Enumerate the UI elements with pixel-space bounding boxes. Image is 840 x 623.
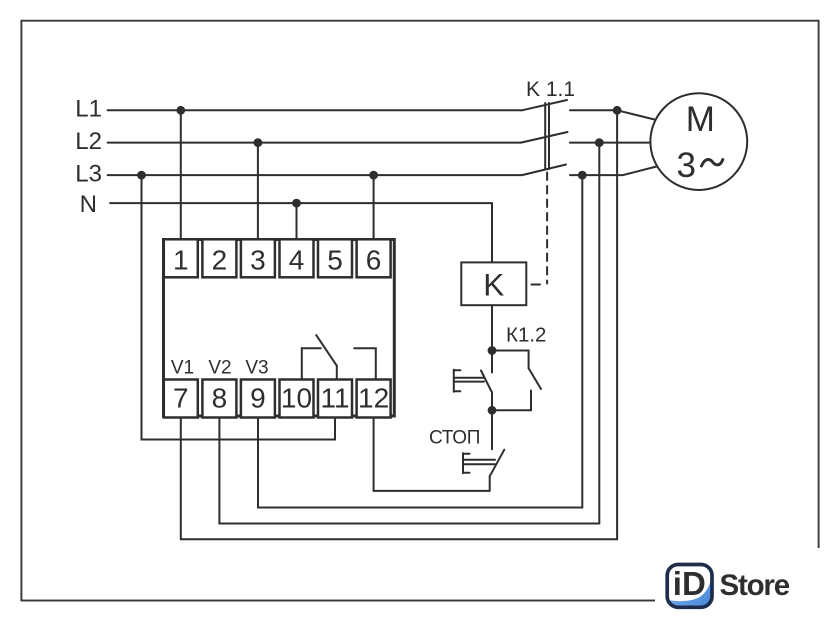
net label N <box>80 191 97 218</box>
svg-text:L2: L2 <box>75 128 102 155</box>
wire L2 right segment to motor <box>570 142 651 144</box>
dashed link from K1.1 to coil K <box>532 173 548 285</box>
wire L2 feeder left segment <box>108 142 521 144</box>
terminal 11 <box>318 380 352 418</box>
terminal 12 <box>357 380 391 418</box>
svg-text:К1.2: К1.2 <box>506 324 546 347</box>
label K 1.1 <box>526 78 575 101</box>
net label L3 <box>75 160 102 187</box>
node L1/terminal1 <box>176 106 185 115</box>
node start button top <box>488 346 497 355</box>
relay device box U1 <box>164 240 395 417</box>
terminal 4 <box>280 239 314 277</box>
svg-text:8: 8 <box>212 383 228 414</box>
svg-text:3: 3 <box>250 244 266 275</box>
node L2/terminal3 <box>254 138 263 147</box>
wire drop L2 to terminal 3 <box>257 143 259 239</box>
svg-text:V2: V2 <box>208 358 231 379</box>
svg-text:V3: V3 <box>245 358 268 379</box>
svg-text:9: 9 <box>250 383 266 414</box>
label V1 <box>171 358 194 379</box>
label V3 <box>245 358 268 379</box>
wire motor line 1 drop <box>616 110 618 539</box>
wire terminal 9 to motor line 3 <box>258 418 582 508</box>
wire terminal 8 to motor line 2 <box>219 418 599 524</box>
label K1.2 <box>506 324 546 347</box>
white patch behind logo <box>655 548 840 623</box>
node N/terminal4 <box>292 199 301 208</box>
wire N feeder <box>110 203 492 262</box>
wire L3 feeder left segment <box>108 174 522 176</box>
contactor contact K1.1 pole 1 blade <box>522 100 567 110</box>
node L3/terminal11 <box>137 171 146 180</box>
wire terminal 11 to L3 <box>142 175 336 439</box>
wire motor line 3 drop <box>581 175 583 507</box>
svg-text:7: 7 <box>173 383 189 414</box>
svg-text:6: 6 <box>366 244 382 275</box>
wire terminal 7 to motor line 1 <box>181 418 617 540</box>
svg-text:L3: L3 <box>75 160 102 187</box>
svg-text:L1: L1 <box>75 96 102 123</box>
svg-text:N: N <box>80 191 97 218</box>
wire terminal 12 to stop button <box>374 418 490 491</box>
terminal 6 <box>357 239 391 277</box>
svg-text:12: 12 <box>358 383 389 414</box>
svg-text:1: 1 <box>173 244 189 275</box>
wire L3 right segment to motor <box>570 167 657 176</box>
logo iD Store <box>666 565 790 610</box>
svg-text:K 1.1: K 1.1 <box>526 78 575 101</box>
svg-text:4: 4 <box>289 244 305 275</box>
svg-text:iD: iD <box>673 565 706 602</box>
contactor contact K1.1 pole 3 blade <box>522 165 566 176</box>
contactor contact K1.1 pole 2 blade <box>521 132 568 143</box>
terminal 1 <box>164 239 198 277</box>
wire L1 right segment to motor <box>570 110 657 120</box>
svg-text:10: 10 <box>281 383 312 414</box>
net label L2 <box>75 128 102 155</box>
wire coil K to K1.2 node <box>491 305 493 350</box>
wire drop N to terminal 4 <box>296 203 298 239</box>
contactor K1.1 linkage bar <box>545 103 549 169</box>
label СТОП <box>429 428 480 449</box>
terminal 7 <box>164 380 198 418</box>
wire drop L1 to terminal 1 <box>180 110 182 239</box>
svg-text:M: M <box>686 100 715 139</box>
terminal 5 <box>318 239 352 277</box>
stop pushbutton SB2 (NC) <box>463 410 504 491</box>
svg-text:2: 2 <box>212 244 228 275</box>
terminal 8 <box>202 380 236 418</box>
terminal 9 <box>241 380 275 418</box>
svg-text:11: 11 <box>320 383 349 414</box>
motor M1 <box>650 93 747 190</box>
node L2/motor <box>595 138 604 147</box>
node L3/motor <box>578 171 587 180</box>
node start button bottom <box>488 406 497 415</box>
internal relay contact of U1 <box>302 335 376 379</box>
svg-text:5: 5 <box>327 244 343 275</box>
contactor coil K <box>461 262 526 305</box>
wire motor line 2 drop <box>598 143 600 524</box>
auxiliary contact K1.2 <box>492 351 541 411</box>
svg-text:3: 3 <box>676 146 695 185</box>
wire drop L3 to terminal 6 <box>373 175 375 239</box>
terminal 10 <box>280 380 314 418</box>
svg-text:Store: Store <box>720 569 790 602</box>
svg-text:V1: V1 <box>171 358 194 379</box>
svg-text:СТОП: СТОП <box>429 428 480 449</box>
node L1/motor <box>613 106 622 115</box>
node L3/terminal6 <box>369 171 378 180</box>
label V2 <box>208 358 231 379</box>
svg-text:K: K <box>483 267 504 303</box>
terminal 2 <box>202 239 236 277</box>
terminal 3 <box>241 239 275 277</box>
net label L1 <box>75 96 102 123</box>
start pushbutton SB1 (NO) <box>454 351 492 411</box>
wire L1 feeder left segment <box>108 109 522 111</box>
